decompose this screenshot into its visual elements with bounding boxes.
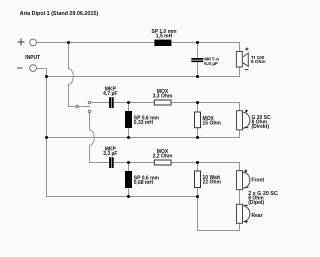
resistor MOX 3,3 Ohm bbox=[154, 100, 171, 105]
svg-text:Rear: Rear bbox=[251, 213, 262, 219]
minus tweeter bbox=[245, 69, 249, 71]
svg-text:15 Ohm: 15 Ohm bbox=[203, 121, 222, 127]
speaker G 20 SC direkt bbox=[237, 111, 250, 130]
wire 10W resistor vertical + bottom loop bbox=[198, 163, 240, 231]
svg-text:8 Ohm: 8 Ohm bbox=[251, 59, 266, 64]
node low/R22 bbox=[196, 161, 199, 164]
node mid/R15 bbox=[196, 101, 199, 104]
minus front bbox=[245, 186, 249, 188]
wire bus1 top positive rail bbox=[37, 43, 240, 52]
node bus4/L068 bbox=[127, 195, 130, 198]
resistor MOX 2,2 Ohm bbox=[154, 160, 171, 165]
wire SP 0,68 shunt bbox=[128, 163, 130, 197]
wire bus3 bbox=[47, 130, 240, 138]
svg-text:6,8 µF: 6,8 µF bbox=[204, 61, 218, 67]
minus rear bbox=[244, 204, 248, 206]
wire MOX 15 shunt bbox=[197, 103, 199, 138]
svg-text:INPUT: INPUT bbox=[25, 55, 40, 61]
plus sign bbox=[18, 39, 25, 46]
wire bus2 bbox=[47, 67, 240, 77]
node mid/L033 bbox=[127, 101, 130, 104]
speaker G 20 SC front bbox=[237, 171, 250, 190]
plus front bbox=[244, 170, 247, 173]
wire hop vertical from bus1 to switch common bbox=[69, 43, 76, 107]
switch common circle bbox=[76, 105, 79, 108]
svg-text:0,68 mH: 0,68 mH bbox=[134, 180, 154, 186]
plus direkt bbox=[245, 110, 248, 113]
svg-text:3,3 µF: 3,3 µF bbox=[103, 151, 117, 157]
svg-text:Aria Dipol 1 (Stand 29.06.2015: Aria Dipol 1 (Stand 29.06.2015) bbox=[20, 11, 99, 17]
wire speaker series link front-rear bbox=[239, 190, 241, 205]
resistor MOX 15 Ohm bbox=[195, 112, 201, 128]
svg-text:22 Ohm: 22 Ohm bbox=[203, 179, 222, 185]
svg-text:2,2 Ohm: 2,2 Ohm bbox=[153, 153, 173, 159]
capacitor MKP 3,3uF bbox=[110, 157, 113, 168]
node minus/bus3 bbox=[45, 136, 48, 139]
speaker G 20 SC rear bbox=[237, 204, 250, 223]
inductor L1 SP 1,0 mm 1,5 mH bbox=[154, 40, 171, 46]
node bus3/L033 bbox=[127, 136, 130, 139]
svg-text:1,5 mH: 1,5 mH bbox=[156, 33, 173, 39]
node bus1/MKT-A bbox=[196, 41, 199, 44]
switch upper contact bbox=[88, 101, 91, 104]
inductor SP 0,6mm 0,33mH bbox=[125, 111, 132, 128]
input terminal plus bbox=[30, 39, 37, 46]
wire switch blade bbox=[79, 106, 91, 108]
node bus2/MKT-A bbox=[196, 75, 199, 78]
speaker polarity marks bbox=[244, 48, 248, 224]
resistor 10 Watt 22 Ohm bbox=[195, 171, 201, 188]
svg-text:(Direkt): (Direkt) bbox=[252, 124, 270, 130]
capacitor MKT-A 6,8uF plates bbox=[191, 59, 203, 61]
inductor SP 0,6mm 0,68mH bbox=[125, 171, 132, 188]
wire SP 0,33 shunt bbox=[128, 103, 130, 138]
wire mid branch bbox=[91, 103, 240, 111]
minus sign bbox=[17, 67, 23, 69]
svg-text:Front: Front bbox=[251, 178, 264, 184]
wire MKT-A vertical bbox=[197, 43, 199, 77]
svg-text:(Dipol): (Dipol) bbox=[248, 200, 264, 206]
switch lower contact bbox=[88, 110, 91, 113]
wire lower branch from switch down with hop over bus3 bbox=[90, 113, 240, 171]
plus rear bbox=[245, 220, 248, 223]
node minus/bus2 bbox=[45, 75, 48, 78]
node bus4/R22 bbox=[196, 195, 199, 198]
wire minus lead bbox=[36, 69, 197, 197]
node bus1/hop bbox=[67, 41, 70, 44]
node low/L068 bbox=[127, 161, 130, 164]
svg-text:0,33 mH: 0,33 mH bbox=[134, 120, 154, 126]
tweeter TI 100 bbox=[236, 52, 248, 68]
svg-text:4,7 µF: 4,7 µF bbox=[103, 91, 117, 97]
plus tweeter bbox=[245, 48, 248, 51]
node bus3/R15 bbox=[196, 136, 199, 139]
svg-text:3,3 Ohm: 3,3 Ohm bbox=[153, 93, 173, 99]
input terminal minus bbox=[30, 65, 37, 72]
minus direkt bbox=[245, 127, 249, 129]
capacitor MKP 4,7uF bbox=[110, 97, 113, 108]
